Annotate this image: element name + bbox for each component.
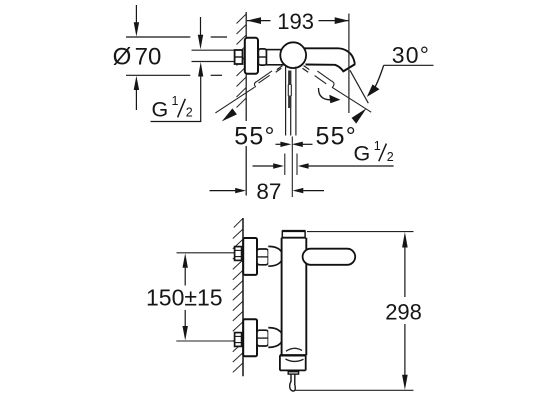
svg-text:1: 1 bbox=[374, 139, 381, 153]
svg-text:G: G bbox=[354, 142, 371, 166]
upper union bulb/elbow bbox=[268, 246, 283, 266]
svg-text:193: 193 bbox=[277, 9, 314, 34]
lever handle (front view, stadium) bbox=[303, 249, 356, 265]
55° phantom lever left: double dash near circle bbox=[277, 66, 283, 70]
body cylinder (top view) bbox=[267, 50, 285, 65]
svg-text:Ø: Ø bbox=[113, 44, 132, 71]
lower union nut bbox=[257, 330, 268, 346]
upper wall flange bbox=[243, 238, 257, 275]
193 right extension line (over spout) bbox=[348, 14, 350, 114]
G 1/2 bottom outlet extension lines bbox=[284, 154, 286, 176]
30° swung spout line bbox=[350, 70, 368, 103]
body side lines bbox=[281, 238, 283, 356]
svg-text:55°: 55° bbox=[234, 122, 275, 150]
svg-text:G: G bbox=[152, 98, 169, 122]
union nut (top view) bbox=[258, 49, 266, 65]
wall line (top view, also 193 + 87 left extension line) bbox=[245, 12, 247, 196]
G 1/2 callout (left) bbox=[151, 17, 204, 122]
svg-text:87: 87 bbox=[256, 179, 281, 204]
swing arc arrow (right) bbox=[318, 88, 330, 100]
G 1/2 dimension (bottom outlet) bbox=[253, 139, 394, 169]
body shading arcs bbox=[286, 348, 302, 351]
lower wall flange bbox=[243, 319, 257, 356]
back nut (behind wall, top view) bbox=[235, 50, 243, 64]
upper union nut bbox=[257, 249, 268, 265]
svg-text:55°: 55° bbox=[316, 123, 357, 151]
55° right arrowhead bbox=[352, 108, 367, 123]
spout (top view) bbox=[304, 48, 355, 71]
dimension 87 bbox=[210, 179, 325, 204]
dimension 298 bbox=[295, 232, 422, 391]
wall hatching (top view) bbox=[237, 14, 247, 108]
55° convergence arrows bbox=[276, 142, 313, 147]
dimension 193 bbox=[247, 9, 349, 34]
wall hatching (front view) bbox=[233, 218, 243, 372]
upper supply stub (behind wall) bbox=[235, 247, 242, 261]
svg-text:150±15: 150±15 bbox=[146, 285, 223, 311]
supply pipe (top view) bbox=[192, 50, 235, 61]
dimension Ø70 bbox=[113, 5, 227, 110]
wall face line (front view) bbox=[242, 218, 244, 376]
svg-text:2: 2 bbox=[186, 106, 193, 120]
55° phantom lever right: double dash near circle bbox=[304, 66, 310, 70]
outlet step bbox=[280, 354, 306, 356]
55° left arrowhead bbox=[222, 108, 237, 121]
55° phantom lever left: capsule outline bbox=[257, 71, 272, 82]
centre extension line below handle bbox=[291, 137, 293, 198]
svg-text:30°: 30° bbox=[392, 42, 430, 68]
body cap bbox=[281, 231, 305, 238]
spout tip face bbox=[343, 64, 354, 71]
faucet body (front view) bbox=[282, 238, 307, 356]
dimension 150±15 bbox=[146, 253, 240, 341]
lower supply stub (behind wall) bbox=[235, 333, 242, 347]
hose nipple bbox=[288, 372, 298, 374]
wall flange / escutcheon (top view) bbox=[245, 38, 258, 74]
svg-text:298: 298 bbox=[385, 299, 422, 324]
drop / hook outlet bbox=[290, 374, 292, 382]
30° label with leader arc bbox=[367, 42, 434, 97]
lever handle pointing down (top view) bbox=[286, 66, 296, 136]
lower union bulb/elbow bbox=[268, 328, 283, 348]
svg-text:70: 70 bbox=[135, 44, 162, 71]
outlet block bbox=[280, 355, 306, 370]
55° left phantom axis line bbox=[215, 87, 254, 113]
55° phantom lever right: capsule outline bbox=[317, 71, 331, 81]
svg-text:2: 2 bbox=[387, 150, 394, 164]
svg-text:1: 1 bbox=[172, 94, 179, 108]
body circle (top view) bbox=[280, 42, 306, 68]
55° right phantom axis line bbox=[332, 87, 371, 112]
